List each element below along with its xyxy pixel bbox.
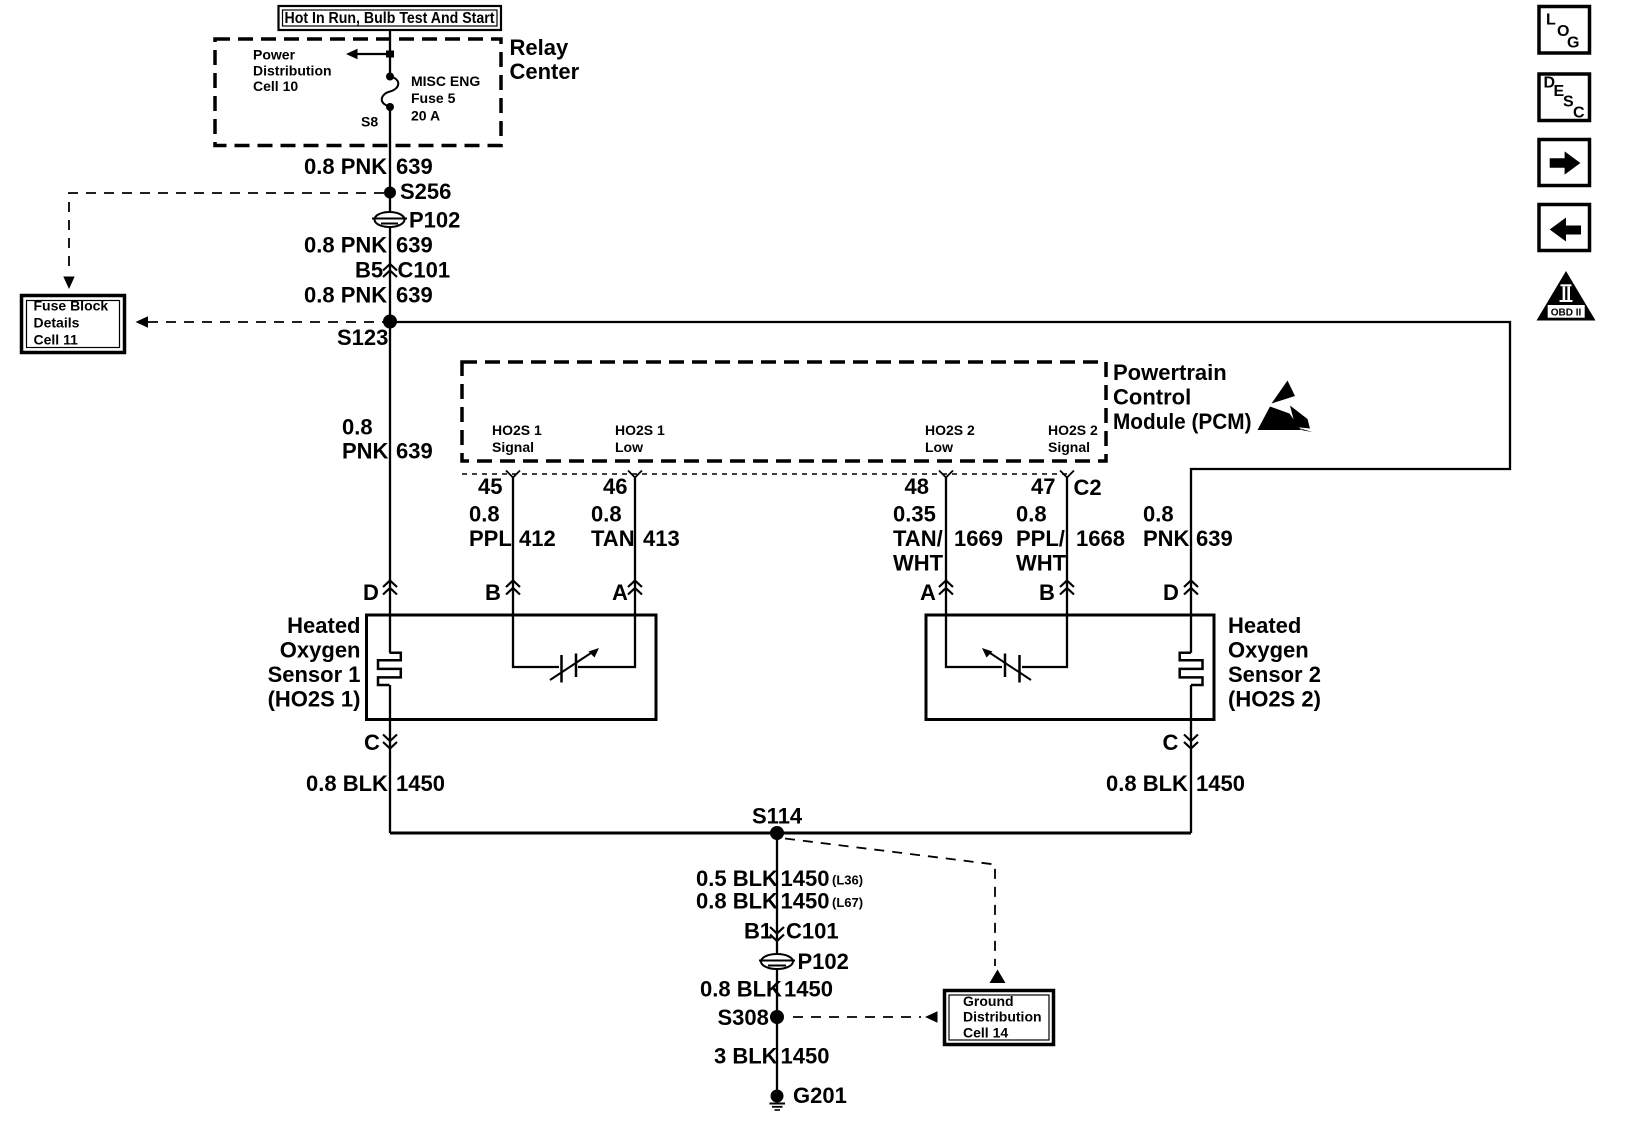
svg-text:1450: 1450 bbox=[781, 889, 830, 914]
svg-text:PPL/: PPL/ bbox=[1016, 526, 1065, 551]
svg-text:C: C bbox=[364, 730, 380, 755]
dashed reference: S308 to Ground Distribution Cell 14 bbox=[793, 1016, 921, 1018]
svg-text:639: 639 bbox=[396, 154, 433, 179]
svg-text:S8: S8 bbox=[361, 114, 378, 130]
svg-text:D: D bbox=[363, 580, 379, 605]
wire: heater2 to case bottom / pin C bbox=[1190, 685, 1192, 833]
svg-text:Fuse Block: Fuse Block bbox=[34, 298, 109, 314]
svg-text:Heated: Heated bbox=[287, 613, 360, 638]
svg-text:Module (PCM): Module (PCM) bbox=[1113, 409, 1252, 434]
svg-text:HO2S 2: HO2S 2 bbox=[1048, 422, 1098, 438]
svg-text:0.8 BLK: 0.8 BLK bbox=[696, 889, 778, 914]
svg-text:0.8 BLK: 0.8 BLK bbox=[306, 771, 388, 796]
svg-text:639: 639 bbox=[396, 439, 433, 464]
svg-text:B5: B5 bbox=[355, 258, 383, 283]
svg-text:G201: G201 bbox=[793, 1083, 847, 1108]
wire: HO2S1 pin B to sense cell bbox=[513, 615, 559, 667]
box: Ground Distribution Cell 14 bbox=[945, 991, 1054, 1045]
ground G201 bbox=[770, 1090, 786, 1111]
svg-text:0.8: 0.8 bbox=[469, 502, 500, 527]
svg-text:PNK: PNK bbox=[1143, 526, 1190, 551]
wire: pin 48 to HO2S2 pin A bbox=[945, 478, 947, 616]
dashed reference: S114 to Ground Distribution Cell 14 bbox=[785, 839, 995, 967]
wire: branch to Power Distribution (arrow left) bbox=[352, 53, 390, 55]
connector P102 (pass-through grommet, lower) bbox=[759, 954, 795, 969]
svg-text:Low: Low bbox=[615, 439, 643, 455]
pin D of HO2S1 (up chevrons) bbox=[383, 581, 397, 595]
svg-text:A: A bbox=[612, 580, 628, 605]
sense cell of HO2S2 (variable galvanic cell with arrow) bbox=[982, 648, 1031, 683]
svg-text:C101: C101 bbox=[398, 258, 451, 283]
wire: S114 down to G201 bbox=[776, 833, 778, 1096]
wire: pin 45 to HO2S1 pin B bbox=[512, 478, 514, 616]
svg-text:HO2S 2: HO2S 2 bbox=[925, 422, 975, 438]
icon: LOG button bbox=[1539, 7, 1590, 54]
wire: pin 47 to HO2S2 pin B bbox=[1066, 478, 1068, 616]
fuse S8 (MISC ENG Fuse 5 20 A) bbox=[382, 73, 399, 112]
arrowhead down into Fuse Block Details box bbox=[63, 277, 74, 290]
svg-text:L: L bbox=[1546, 11, 1556, 28]
svg-text:0.8: 0.8 bbox=[1143, 502, 1174, 527]
svg-text:46: 46 bbox=[603, 474, 627, 499]
svg-text:0.35: 0.35 bbox=[893, 502, 936, 527]
wire: HO2S2 pin A to sense cell bbox=[946, 615, 1002, 667]
svg-text:P102: P102 bbox=[409, 208, 460, 233]
box: Heated Oxygen Sensor 1 (HO2S 1) bbox=[367, 615, 657, 720]
svg-text:1450: 1450 bbox=[781, 1044, 830, 1069]
arrowhead into Fuse Block Details box (pointing left) bbox=[136, 316, 149, 327]
svg-text:0.8: 0.8 bbox=[342, 415, 373, 440]
svg-text:1450: 1450 bbox=[781, 866, 830, 891]
heater element of HO2S2 bbox=[1180, 653, 1203, 685]
wire: heater to case bottom / pin C bbox=[389, 685, 391, 833]
svg-text:0.8 PNK: 0.8 PNK bbox=[304, 283, 387, 308]
icon: previous page button (left arrow) bbox=[1539, 205, 1590, 251]
svg-text:48: 48 bbox=[905, 474, 929, 499]
svg-text:S256: S256 bbox=[400, 179, 451, 204]
node S114 bbox=[770, 826, 784, 840]
svg-text:1450: 1450 bbox=[1196, 771, 1245, 796]
svg-text:20 A: 20 A bbox=[411, 108, 440, 124]
svg-text:C: C bbox=[1163, 730, 1179, 755]
svg-text:Center: Center bbox=[510, 59, 580, 84]
svg-text:S123: S123 bbox=[337, 325, 388, 350]
wire: P102 to C101 bbox=[389, 227, 391, 322]
svg-text:0.8 PNK: 0.8 PNK bbox=[304, 233, 387, 258]
svg-text:C: C bbox=[1573, 104, 1585, 121]
icon: next page button (right arrow) bbox=[1539, 140, 1590, 186]
pin A of HO2S1 (up chevrons) bbox=[628, 581, 642, 595]
svg-text:C2: C2 bbox=[1074, 475, 1102, 500]
svg-text:D: D bbox=[1163, 580, 1179, 605]
sense cell of HO2S1 (variable galvanic cell with arrow) bbox=[550, 648, 599, 683]
dashed reference: S123 to Fuse Block Details bbox=[148, 321, 384, 323]
box: Relay Center (dashed) bbox=[215, 39, 501, 146]
box: Powertrain Control Module (PCM) dashed bbox=[462, 362, 1106, 461]
svg-text:PNK: PNK bbox=[342, 439, 389, 464]
svg-text:0.8: 0.8 bbox=[591, 502, 622, 527]
svg-text:Distribution: Distribution bbox=[253, 62, 332, 78]
wire: sense cell to HO2S2 pin B bbox=[1022, 615, 1067, 667]
wire: S123 down to HO2S1 pin D bbox=[389, 322, 391, 653]
ESD sensitivity symbol bbox=[1258, 381, 1313, 433]
svg-text:S308: S308 bbox=[718, 1005, 769, 1030]
svg-text:639: 639 bbox=[396, 283, 433, 308]
wire: fuse output down to S256 bbox=[389, 107, 391, 212]
box: Fuse Block Details Cell 11 bbox=[22, 296, 125, 353]
PCM pin 48 connector fork bbox=[939, 471, 953, 478]
svg-text:Power: Power bbox=[253, 47, 296, 63]
connector C101 cavity B5 (up chevrons) bbox=[383, 264, 397, 277]
wire: ground bus bbox=[390, 832, 1191, 835]
wire: sense cell to HO2S1 pin A bbox=[578, 615, 635, 667]
svg-text:P102: P102 bbox=[798, 949, 849, 974]
svg-text:Oxygen: Oxygen bbox=[1228, 638, 1309, 663]
svg-text:PPL: PPL bbox=[469, 526, 512, 551]
svg-text:(L67): (L67) bbox=[832, 895, 863, 910]
svg-text:Sensor 2: Sensor 2 bbox=[1228, 662, 1321, 687]
heater element of HO2S1 bbox=[378, 653, 401, 685]
svg-text:Cell 11: Cell 11 bbox=[34, 332, 79, 348]
svg-text:A: A bbox=[920, 580, 936, 605]
svg-text:639: 639 bbox=[1196, 526, 1233, 551]
box: Hot In Run, Bulb Test And Start (power feed title) bbox=[279, 6, 502, 30]
svg-text:412: 412 bbox=[519, 526, 556, 551]
svg-text:47: 47 bbox=[1031, 474, 1055, 499]
svg-text:(HO2S 2): (HO2S 2) bbox=[1228, 687, 1321, 712]
svg-text:1668: 1668 bbox=[1076, 526, 1125, 551]
svg-text:Ground: Ground bbox=[963, 993, 1014, 1009]
PCM pin 45 connector fork bbox=[506, 471, 520, 478]
box: Heated Oxygen Sensor 2 (HO2S 2) bbox=[926, 615, 1214, 720]
svg-text:HO2S 1: HO2S 1 bbox=[492, 422, 542, 438]
svg-text:413: 413 bbox=[643, 526, 680, 551]
junction dot at fuse feed bbox=[386, 51, 394, 58]
svg-text:Details: Details bbox=[34, 315, 80, 331]
dashed reference: S256 to Fuse Block Details bbox=[69, 193, 384, 273]
node S256 bbox=[384, 187, 396, 199]
svg-text:Signal: Signal bbox=[492, 439, 534, 455]
connector P102 (pass-through grommet) bbox=[372, 212, 407, 227]
svg-text:OBD II: OBD II bbox=[1551, 307, 1582, 318]
svg-text:MISC ENG: MISC ENG bbox=[411, 73, 480, 89]
node S308 bbox=[770, 1010, 784, 1024]
svg-text:S114: S114 bbox=[752, 804, 803, 829]
svg-text:1450: 1450 bbox=[396, 771, 445, 796]
svg-text:Signal: Signal bbox=[1048, 439, 1090, 455]
svg-text:1669: 1669 bbox=[954, 526, 1003, 551]
svg-text:Fuse 5: Fuse 5 bbox=[411, 90, 456, 106]
svg-text:Low: Low bbox=[925, 439, 953, 455]
PCM pin 47 connector fork bbox=[1060, 471, 1074, 478]
svg-text:Heated: Heated bbox=[1228, 613, 1301, 638]
svg-text:Control: Control bbox=[1113, 385, 1191, 410]
svg-text:Cell 14: Cell 14 bbox=[963, 1024, 1008, 1040]
svg-text:0.8 BLK: 0.8 BLK bbox=[1106, 771, 1188, 796]
svg-text:0.8: 0.8 bbox=[1016, 502, 1047, 527]
svg-text:Sensor 1: Sensor 1 bbox=[268, 662, 361, 687]
arrowhead pointing up toward S114 bbox=[990, 970, 1006, 984]
svg-text:WHT: WHT bbox=[893, 551, 944, 576]
pin B of HO2S1 (up chevrons) bbox=[506, 581, 520, 595]
svg-text:0.8 PNK: 0.8 PNK bbox=[304, 154, 387, 179]
svg-text:Distribution: Distribution bbox=[963, 1009, 1042, 1025]
svg-text:639: 639 bbox=[396, 233, 433, 258]
svg-text:TAN/: TAN/ bbox=[893, 526, 943, 551]
icon: OBD II badge bbox=[1537, 271, 1596, 321]
svg-text:3 BLK: 3 BLK bbox=[714, 1044, 778, 1069]
connector C101 cavity B1 (down chevrons) bbox=[770, 927, 784, 941]
svg-text:TAN: TAN bbox=[591, 526, 635, 551]
svg-text:0.8 BLK: 0.8 BLK bbox=[700, 977, 782, 1002]
icon: DESC button bbox=[1539, 74, 1590, 121]
PCM pin 46 connector fork bbox=[628, 471, 642, 478]
wire: S123 across top to right side feed bbox=[390, 322, 1510, 653]
wire: feed from Hot box into Relay Center down to fuse bbox=[389, 30, 391, 76]
svg-text:(L36): (L36) bbox=[832, 873, 863, 888]
pin B of HO2S2 (up chevrons) bbox=[1060, 581, 1074, 595]
svg-text:C101: C101 bbox=[786, 919, 839, 944]
arrowhead pointing left toward S308 bbox=[925, 1011, 938, 1022]
svg-text:WHT: WHT bbox=[1016, 551, 1067, 576]
svg-text:B: B bbox=[1039, 580, 1055, 605]
node S123 bbox=[383, 315, 397, 329]
svg-text:Cell 10: Cell 10 bbox=[253, 78, 298, 94]
pin D of HO2S2 (up chevrons) bbox=[1184, 581, 1198, 595]
svg-text:G: G bbox=[1567, 35, 1579, 52]
svg-text:(HO2S 1): (HO2S 1) bbox=[268, 687, 361, 712]
arrowhead to Power Distribution bbox=[346, 49, 358, 59]
pin C of HO2S1 (down chevrons) bbox=[383, 735, 397, 749]
svg-text:Powertrain: Powertrain bbox=[1113, 360, 1227, 385]
svg-text:HO2S 1: HO2S 1 bbox=[615, 422, 665, 438]
svg-text:B1: B1 bbox=[744, 919, 772, 944]
svg-text:1450: 1450 bbox=[784, 977, 833, 1002]
svg-text:B: B bbox=[485, 580, 501, 605]
wire: pin 46 to HO2S1 pin A bbox=[634, 478, 636, 616]
svg-text:Oxygen: Oxygen bbox=[280, 638, 361, 663]
pin C of HO2S2 (down chevrons) bbox=[1184, 735, 1198, 749]
svg-text:Hot In Run, Bulb Test And Star: Hot In Run, Bulb Test And Start bbox=[285, 10, 496, 27]
svg-text:Relay: Relay bbox=[510, 35, 569, 60]
svg-text:0.5 BLK: 0.5 BLK bbox=[696, 866, 778, 891]
connector C2 dashed tie line bbox=[462, 473, 1067, 475]
svg-text:45: 45 bbox=[478, 474, 502, 499]
pin A of HO2S2 (up chevrons) bbox=[939, 581, 953, 595]
